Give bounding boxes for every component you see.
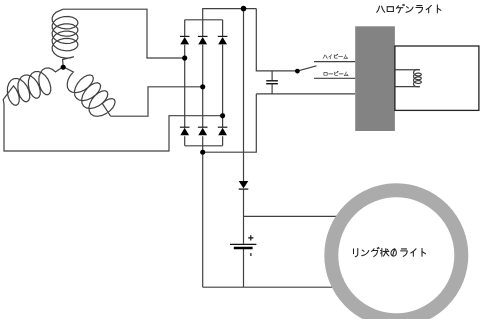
node star point of alternator: [61, 65, 66, 70]
wire DC+ riser to distribution node: [203, 9, 257, 20]
node phase B junction: [200, 84, 205, 89]
switch SW1 blade: [297, 66, 316, 71]
label battery - terminal: [250, 253, 252, 256]
node phase C junction: [220, 113, 225, 118]
ring light body: [331, 190, 461, 319]
diode D2 (top row): [198, 36, 208, 44]
coil L2 left stator winding: [3, 67, 63, 105]
filament leads (over envelope): [395, 70, 421, 87]
diode D7 series diode (points down): [239, 181, 249, 189]
label ロービーム (low beam): [324, 71, 348, 75]
wire DC+ feed to switch: [256, 9, 297, 71]
filament coil: [414, 70, 422, 87]
label ハイビーム (high beam): [323, 54, 348, 59]
wire capacitor stubs: [271, 71, 273, 94]
wire phase B: right coil to bridge: [111, 87, 203, 116]
halogen bulb envelope: [395, 46, 479, 110]
node DC+ junction: [241, 6, 247, 12]
wire phase C: left coil to bridge: [4, 104, 223, 151]
wire filament leads: [395, 70, 420, 87]
wire bridge right leg: [222, 20, 224, 146]
label battery + terminal: [248, 235, 253, 240]
wire bridge left leg: [184, 20, 186, 146]
filament coil of halogen bulb: [414, 70, 422, 87]
wire DC+ to series diode and battery: [243, 9, 245, 288]
wire high beam: [314, 61, 355, 63]
wire DC- bottom to ring light: [203, 286, 332, 288]
capacitor C1: [266, 81, 278, 84]
halogen lamp housing (gray body): [355, 26, 395, 131]
wire DC- tail below bridge: [202, 146, 204, 287]
coil L3 right stator winding: [63, 67, 115, 117]
battery BT1: [230, 244, 256, 248]
label ハロゲンライト (halogen light): [377, 4, 441, 13]
label リング状のライト (ring shaped light): [354, 247, 426, 256]
wire phase A: top coil to bridge: [63, 9, 185, 58]
diode D5 (bottom row): [198, 127, 208, 135]
wire lamp common: [256, 93, 355, 95]
wire battery positive to ring light: [244, 215, 337, 217]
wire low beam: [314, 77, 355, 79]
coil L1 top stator winding: [52, 9, 78, 67]
diode D6 (bottom row): [218, 127, 228, 135]
wire bridge middle leg: [202, 20, 204, 146]
node DC- junction: [200, 150, 205, 155]
node phase A junction: [182, 55, 187, 60]
wire bottom bus DC-: [185, 145, 223, 147]
diode D3 (top row): [218, 36, 228, 44]
wire top bus DC+: [185, 19, 223, 21]
diode D1 (top row): [180, 36, 190, 44]
wire lamp return: common to DC- node: [203, 94, 257, 152]
switch SW1 pole contact: [295, 69, 300, 74]
diode D4 (bottom row): [180, 127, 190, 135]
